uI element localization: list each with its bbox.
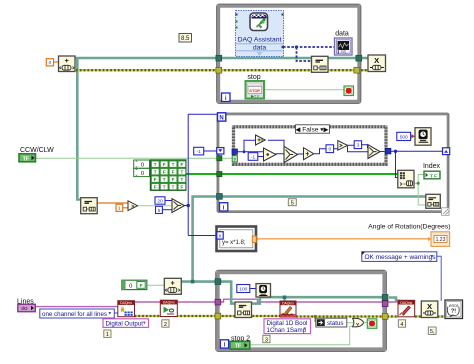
label 5	[428, 327, 436, 335]
Digital 1D Bool combo	[264, 319, 311, 334]
wire: -1 constant to left shift register	[204, 150, 218, 152]
svg-text:Digital Output: Digital Output	[106, 320, 144, 327]
label 2	[162, 320, 169, 328]
svg-text:T: T	[172, 162, 175, 167]
svg-text:2: 2	[164, 322, 167, 328]
wire: 5 const to select	[162, 209, 172, 211]
svg-text:DAQmx: DAQmx	[120, 301, 132, 305]
tunnel teal right	[382, 295, 388, 301]
greater-than node	[128, 201, 138, 211]
svg-text:5: 5	[291, 200, 294, 206]
or gate	[353, 318, 368, 327]
for loop	[217, 113, 449, 213]
tunnel teal right top loop	[356, 55, 362, 61]
-1 constant (shift reg init)	[194, 147, 204, 155]
loop condition terminal top	[344, 86, 354, 96]
label 5 inside for loop	[288, 199, 296, 207]
svg-text:F: F	[140, 283, 143, 288]
svg-text:-1: -1	[251, 155, 256, 161]
constant 0 (quotient)	[326, 145, 334, 153]
svg-text:1.23: 1.23	[436, 237, 446, 243]
svg-text:1: 1	[106, 332, 109, 338]
constant 20	[155, 197, 165, 205]
CCW/CLW boolean control	[19, 147, 54, 162]
svg-text:T: T	[163, 177, 166, 182]
svg-text:3: 3	[357, 143, 360, 149]
2D boolean array constant	[134, 160, 186, 191]
coercion dot red at convert node1	[311, 60, 314, 63]
wire: blue combo1 to create channel	[114, 312, 118, 314]
label 4	[398, 320, 405, 328]
svg-text:Angle of Rotation(Degrees): Angle of Rotation(Degrees)	[368, 223, 450, 230]
DAQmx stop task node	[398, 300, 415, 317]
svg-text:I/O: I/O	[21, 306, 28, 311]
wire: teal right outside loop to stop task	[389, 298, 400, 301]
tunnel error right top loop	[354, 67, 360, 73]
data waveform indicator	[335, 31, 353, 56]
svg-text:DAQmx: DAQmx	[400, 301, 412, 305]
wire: 500 to wait	[411, 135, 416, 137]
svg-text:X: X	[427, 302, 432, 311]
case structure	[234, 125, 387, 165]
svg-text:0: 0	[141, 171, 144, 177]
svg-text:N: N	[219, 116, 223, 122]
DAQmx create channel node	[118, 301, 135, 317]
svg-text:3: 3	[265, 337, 268, 343]
compound arithmetic node	[284, 146, 298, 162]
constant 1 orange	[116, 204, 123, 211]
wire: 2D boolean array to index array node	[186, 173, 398, 175]
svg-text:0: 0	[49, 60, 52, 65]
wire: boolean status to or	[347, 322, 353, 324]
svg-text:100: 100	[239, 287, 247, 293]
expression node y = x*1.8	[217, 227, 257, 252]
wire: boolean gt to select	[138, 205, 172, 207]
svg-text:F: F	[180, 184, 183, 189]
tunnel teal left	[215, 279, 221, 285]
svg-text:OK message + warnings: OK message + warnings	[365, 254, 437, 261]
svg-text:v: v	[356, 322, 359, 327]
DAQ Assistant express VI	[236, 11, 284, 57]
svg-text:stop: stop	[247, 74, 260, 81]
svg-text:T F: T F	[430, 174, 437, 179]
wire: magenta task create->start->loop->write	[135, 299, 281, 302]
svg-text:X: X	[374, 56, 379, 65]
svg-text:F: F	[163, 169, 166, 174]
constant 500	[397, 132, 411, 140]
label 1	[104, 330, 111, 338]
iteration terminal top [i]	[222, 93, 231, 102]
constant 0 orange (top left)	[46, 59, 53, 66]
svg-text:▍W▏: ▍W▏	[337, 49, 348, 54]
tunnel error left top loop	[216, 67, 222, 73]
convert node3 (bottom right of for loop)	[426, 194, 441, 208]
wire: error dashed bottom row	[135, 315, 446, 318]
iteration terminal bottom	[220, 340, 228, 349]
wait ms node 2	[256, 284, 271, 297]
case input tunnel blue	[232, 149, 237, 154]
convert node2 (bottom loop)	[235, 302, 252, 318]
svg-text:?: ?	[233, 157, 236, 162]
tunnel magenta left	[215, 299, 221, 305]
tunnel error left	[215, 313, 221, 319]
wire: 100 to wait2	[250, 288, 257, 290]
svg-text:data: data	[335, 31, 349, 38]
junction dot dynamic data	[295, 45, 298, 48]
convert from dynamic data node (left, node1)	[81, 198, 98, 214]
svg-text:500: 500	[400, 135, 408, 141]
wire: error cluster dashed top row	[76, 69, 368, 71]
stop 2 control	[230, 336, 250, 350]
wire: orange expression output to angle indicator	[256, 238, 431, 240]
svg-text:20: 20	[157, 198, 163, 204]
stop button terminal	[246, 74, 265, 99]
svg-text:5,: 5,	[430, 329, 435, 335]
tunnel boolean ccw on for loop	[217, 156, 222, 161]
wire: error branch down to status	[314, 317, 316, 323]
shift register left	[217, 148, 224, 154]
while loop top	[217, 4, 361, 103]
wire: teal task/digital from rotate-array icon to top loop and X node	[74, 57, 368, 60]
constant 100	[237, 285, 250, 293]
wire: teal into for loop to convert node3	[193, 197, 426, 282]
svg-text:F: F	[154, 184, 157, 189]
label 3	[263, 335, 270, 343]
status unbundle	[316, 318, 347, 327]
svg-text:F: F	[172, 169, 175, 174]
wait ms node	[415, 128, 431, 146]
svg-text:◀ False ▾▶: ◀ False ▾▶	[295, 127, 329, 134]
error out dialog node	[445, 300, 463, 319]
svg-text:TF: TF	[23, 156, 29, 162]
wire: orange 1 const to greater-than	[122, 207, 128, 209]
clear task node (X)	[421, 301, 438, 318]
svg-text:DAQmx: DAQmx	[163, 301, 175, 305]
svg-text:Digital 1D Bool: Digital 1D Bool	[267, 320, 308, 327]
index array node	[398, 170, 414, 188]
multiply array elements node top	[368, 55, 386, 72]
svg-text:TF: TF	[235, 344, 241, 350]
DAQmx write node	[280, 301, 296, 317]
svg-text:8.5: 8.5	[181, 36, 190, 42]
svg-text:T: T	[154, 169, 157, 174]
svg-text:error: error	[449, 303, 459, 308]
rotate/convert array icon2	[164, 278, 181, 294]
decrement node	[304, 148, 314, 160]
coercion arrow red at wait	[412, 134, 415, 139]
resize glyph bottom right corner	[442, 208, 450, 216]
svg-text:F: F	[180, 162, 183, 167]
wire: case inner chain	[237, 140, 386, 156]
wire: teal node2 out up and right to tunnel	[252, 297, 387, 303]
wire: dynamic data dashed from DAQ Assistant to data indicator	[283, 46, 335, 48]
svg-text:1Chan 1Samp: 1Chan 1Samp	[267, 327, 307, 334]
svg-text:0: 0	[328, 147, 331, 153]
svg-text:F: F	[172, 177, 175, 182]
svg-text:>: >	[131, 204, 134, 210]
svg-text:T: T	[180, 177, 183, 182]
select node	[172, 199, 185, 213]
svg-text:T: T	[163, 184, 166, 189]
boolean array constant [0 F]	[122, 280, 147, 289]
svg-text:x: x	[219, 234, 222, 240]
one channel for all lines combo	[40, 309, 115, 318]
while loop bottom	[216, 270, 387, 351]
Digital Output combo	[103, 319, 149, 328]
wire: boolean from stop button to loop condition	[264, 89, 344, 91]
svg-text:T: T	[180, 169, 183, 174]
DAQmx start task node	[160, 300, 177, 316]
constant -1 in case	[248, 153, 258, 161]
svg-text:CCW/CLW: CCW/CLW	[20, 147, 54, 154]
wire: teal icon2 output	[181, 282, 235, 304]
svg-text:y= x*1.8;: y= x*1.8;	[222, 240, 246, 246]
constant 3	[354, 141, 361, 149]
wire: case output to right shift register and index array	[390, 151, 443, 177]
convert from dynamic data node1 (top)	[312, 56, 329, 72]
N count terminal	[218, 113, 226, 122]
case output tunnel	[385, 148, 391, 154]
Angle of Rotation label + indicator	[368, 223, 450, 246]
svg-text:status: status	[327, 320, 344, 327]
svg-text:one channel for all lines: one channel for all lines	[42, 311, 107, 318]
wire: orange 0 constant to rotate icon	[53, 61, 58, 63]
svg-text:-1: -1	[197, 149, 202, 155]
tunnel teal left top loop	[216, 55, 222, 61]
wire: orange node1 to greater-than	[97, 202, 128, 204]
svg-text:STOP: STOP	[249, 88, 260, 93]
svg-text:data: data	[253, 45, 266, 52]
tunnel bool array on for loop	[217, 172, 222, 177]
wire: boolean CCW/CLW to case selector	[35, 157, 233, 159]
constant 8.5	[179, 34, 192, 43]
svg-text:0: 0	[141, 163, 144, 169]
wire: select output up to N and down to expression x	[185, 114, 219, 235]
wire: boolean stop2 to or	[250, 326, 353, 345]
svg-text:0: 0	[129, 284, 132, 290]
wire: boolean 0F array const to icon2	[147, 284, 164, 286]
constant 5	[156, 206, 163, 214]
select node in case	[368, 145, 380, 159]
svg-text:5: 5	[158, 208, 161, 214]
wire: teal branch into DAQmx write top	[284, 297, 286, 301]
svg-text:DAQ Assistant: DAQ Assistant	[238, 37, 282, 44]
shift register right	[443, 148, 450, 155]
wire: dynamic data branch down into convert node1	[297, 47, 313, 61]
tunnel teal on for loop	[217, 194, 223, 200]
junction teal	[191, 280, 195, 284]
Lines label + control	[17, 298, 35, 311]
svg-text:Index: Index	[423, 163, 441, 170]
wire: blue OK message combo down to error out	[437, 256, 441, 301]
increment node	[256, 135, 266, 145]
svg-text:DAQmx: DAQmx	[282, 302, 294, 306]
iteration terminal for loop	[220, 203, 228, 212]
wire: 20 const to select	[165, 200, 172, 202]
svg-text:F: F	[154, 177, 157, 182]
svg-text:F: F	[163, 162, 166, 167]
junction dot select output	[187, 204, 190, 207]
wire: index array bool out to Index indicator and node3	[414, 175, 426, 206]
tunnel error right	[382, 314, 388, 320]
OK message + warnings combo	[362, 252, 437, 262]
rotate 1D array icon1	[59, 56, 76, 72]
svg-text:4: 4	[400, 322, 403, 328]
equal node	[338, 141, 348, 151]
svg-text:T: T	[172, 184, 175, 189]
tunnel magenta right	[382, 301, 388, 307]
loop condition terminal bottom	[367, 319, 377, 329]
svg-text:1: 1	[118, 206, 121, 211]
wire: teal vertical branch down to convert node1	[77, 58, 82, 200]
svg-text:T: T	[154, 162, 157, 167]
svg-text:?!: ?!	[451, 309, 456, 315]
case selector terminal	[232, 156, 237, 162]
case label False	[296, 125, 330, 133]
wire: magenta Lines to create channel	[35, 306, 118, 308]
multiply node	[264, 148, 277, 161]
Index label + indicator	[423, 163, 441, 179]
